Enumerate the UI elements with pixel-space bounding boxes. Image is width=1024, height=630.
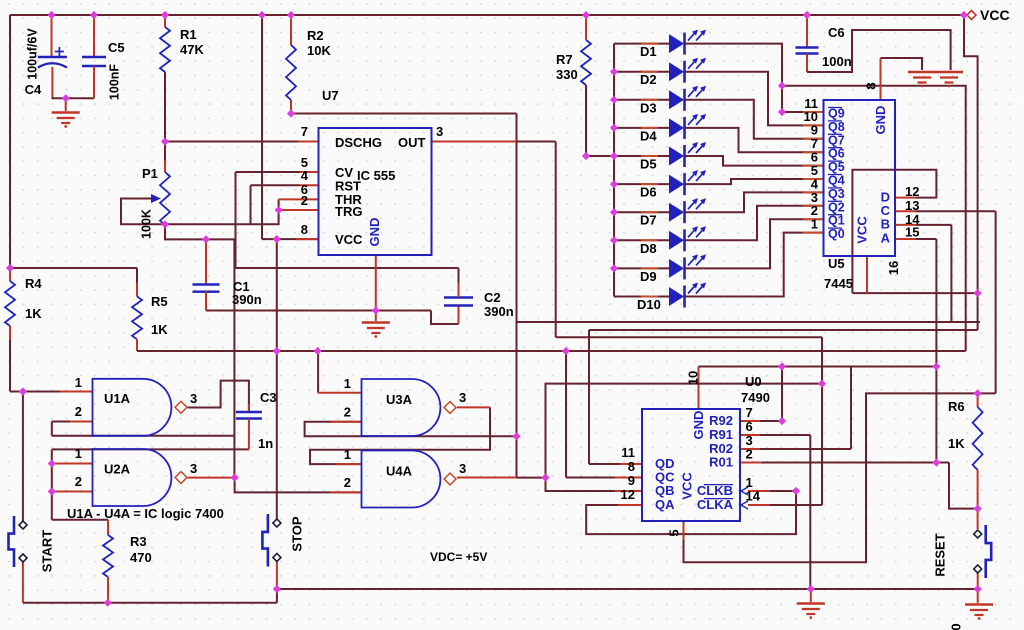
svg-text:C6: C6 <box>828 25 845 40</box>
svg-text:8: 8 <box>301 222 308 237</box>
svg-text:D8: D8 <box>640 241 657 256</box>
svg-text:1: 1 <box>75 375 82 390</box>
svg-text:3: 3 <box>190 461 197 476</box>
svg-text:Q8: Q8 <box>828 120 845 134</box>
svg-text:1: 1 <box>75 446 82 461</box>
svg-text:14: 14 <box>746 489 761 504</box>
svg-text:R2: R2 <box>307 28 324 43</box>
svg-text:U1A: U1A <box>104 391 131 406</box>
svg-text:9: 9 <box>628 473 635 488</box>
svg-text:390n: 390n <box>484 304 514 319</box>
svg-text:Q2: Q2 <box>828 200 845 214</box>
svg-text:R5: R5 <box>151 294 168 309</box>
svg-text:D4: D4 <box>640 128 657 143</box>
svg-text:12: 12 <box>905 184 919 199</box>
svg-text:Q9: Q9 <box>828 107 845 121</box>
svg-text:2: 2 <box>344 475 351 490</box>
svg-text:Q6: Q6 <box>828 147 845 161</box>
svg-text:VDC= +5V: VDC= +5V <box>430 550 487 564</box>
svg-text:C2: C2 <box>484 290 501 305</box>
svg-text:RESET: RESET <box>933 533 948 576</box>
svg-text:1n: 1n <box>258 436 273 451</box>
svg-text:D9: D9 <box>640 269 657 284</box>
svg-text:Q4: Q4 <box>828 174 845 188</box>
svg-text:Q0: Q0 <box>828 227 845 241</box>
svg-text:7: 7 <box>301 124 308 139</box>
svg-text:330: 330 <box>556 67 578 82</box>
svg-text:4: 4 <box>301 168 309 183</box>
svg-text:R92: R92 <box>709 413 733 428</box>
svg-text:5: 5 <box>667 529 682 536</box>
svg-text:R1: R1 <box>180 27 197 42</box>
svg-text:390n: 390n <box>232 292 262 307</box>
svg-text:A: A <box>881 230 891 245</box>
svg-text:Q1: Q1 <box>828 214 845 228</box>
svg-text:C5: C5 <box>108 40 125 55</box>
svg-text:U2A: U2A <box>104 462 131 477</box>
svg-text:3: 3 <box>459 461 466 476</box>
svg-text:QB: QB <box>655 483 675 498</box>
svg-text:1K: 1K <box>948 436 965 451</box>
svg-text:U4A: U4A <box>386 464 413 479</box>
svg-text:2: 2 <box>75 404 82 419</box>
svg-text:DSCHG: DSCHG <box>335 135 382 150</box>
svg-text:Q3: Q3 <box>828 187 845 201</box>
svg-text:8: 8 <box>628 459 635 474</box>
svg-text:8: 8 <box>864 82 879 89</box>
svg-text:R3: R3 <box>130 534 147 549</box>
svg-text:C4: C4 <box>25 82 42 97</box>
svg-text:2: 2 <box>344 405 351 420</box>
svg-text:U5: U5 <box>828 256 845 271</box>
svg-text:470: 470 <box>130 550 152 565</box>
svg-text:START: START <box>40 530 55 572</box>
svg-text:R01: R01 <box>709 455 733 470</box>
svg-text:R4: R4 <box>25 276 42 291</box>
svg-text:3: 3 <box>436 124 443 139</box>
svg-text:GND: GND <box>367 218 382 247</box>
svg-text:GND: GND <box>691 411 706 440</box>
svg-text:3: 3 <box>190 391 197 406</box>
svg-text:R91: R91 <box>709 427 733 442</box>
svg-text:16: 16 <box>886 261 901 275</box>
svg-text:2: 2 <box>301 193 308 208</box>
svg-text:GND: GND <box>873 106 888 135</box>
svg-text:1: 1 <box>344 447 351 462</box>
svg-text:D1: D1 <box>640 44 657 59</box>
svg-text:2: 2 <box>75 474 82 489</box>
svg-text:VCC: VCC <box>855 216 870 244</box>
svg-text:QA: QA <box>655 497 675 512</box>
svg-text:U3A: U3A <box>386 392 413 407</box>
svg-text:7490: 7490 <box>741 390 770 405</box>
svg-text:12: 12 <box>621 487 635 502</box>
svg-text:VCC: VCC <box>335 232 363 247</box>
svg-text:7: 7 <box>746 405 753 420</box>
svg-text:100uf/6V: 100uf/6V <box>26 28 40 80</box>
svg-text:11: 11 <box>621 445 635 460</box>
svg-text:U7: U7 <box>322 88 339 103</box>
svg-text:100nF: 100nF <box>108 64 122 100</box>
svg-text:1: 1 <box>344 376 351 391</box>
svg-text:6: 6 <box>746 419 753 434</box>
svg-text:47K: 47K <box>180 42 204 57</box>
svg-text:D10: D10 <box>637 297 661 312</box>
svg-text:7445: 7445 <box>824 276 853 291</box>
svg-text:0: 0 <box>949 623 964 630</box>
svg-text:STOP: STOP <box>290 516 305 551</box>
svg-text:100K: 100K <box>140 209 154 239</box>
svg-text:100n: 100n <box>822 54 852 69</box>
svg-text:P1: P1 <box>142 166 158 181</box>
svg-text:U0: U0 <box>745 374 762 389</box>
svg-text:Q7: Q7 <box>828 133 845 147</box>
svg-text:3: 3 <box>459 390 466 405</box>
svg-text:TRG: TRG <box>335 204 362 219</box>
svg-text:D5: D5 <box>640 157 657 172</box>
svg-text:13: 13 <box>905 198 919 213</box>
svg-text:D6: D6 <box>640 185 657 200</box>
svg-text:U1A - U4A = IC logic 7400: U1A - U4A = IC logic 7400 <box>67 506 224 521</box>
svg-text:1K: 1K <box>151 322 168 337</box>
svg-text:2: 2 <box>746 447 753 462</box>
svg-text:R6: R6 <box>948 399 965 414</box>
svg-text:1: 1 <box>811 217 818 232</box>
svg-text:1K: 1K <box>25 306 42 321</box>
svg-text:15: 15 <box>905 225 919 240</box>
svg-text:IC 555: IC 555 <box>357 168 395 183</box>
svg-text:10: 10 <box>686 371 701 385</box>
svg-text:VCC: VCC <box>980 7 1010 23</box>
svg-text:D3: D3 <box>640 100 657 115</box>
svg-text:OUT: OUT <box>398 135 426 150</box>
svg-text:D2: D2 <box>640 72 657 87</box>
svg-text:C3: C3 <box>260 390 277 405</box>
svg-text:R7: R7 <box>556 52 573 67</box>
svg-text:VCC: VCC <box>680 472 695 500</box>
svg-text:D7: D7 <box>640 213 657 228</box>
svg-text:10K: 10K <box>307 43 331 58</box>
svg-text:Q5: Q5 <box>828 160 845 174</box>
